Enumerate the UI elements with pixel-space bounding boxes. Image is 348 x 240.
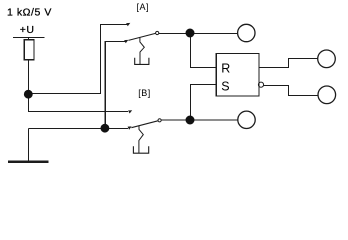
svg-text:[B]: [B] [138, 88, 151, 98]
wire: rail to resistor [28, 37, 30, 40]
ground rail wire to switch B lower contact [29, 127, 129, 129]
wire: riser 1 up toward switch A [100, 24, 102, 94]
supply rail bar +U [13, 37, 45, 39]
switch A pushbutton bracket [135, 58, 149, 65]
junction node 1 (resistor output) [24, 90, 33, 99]
svg-text:[A]: [A] [137, 2, 150, 12]
wire: switch B pole to node 4 [161, 119, 190, 121]
wire: rail down to ground [28, 128, 30, 160]
wire: node 3 down to R input [191, 33, 217, 68]
switch B actuator link [139, 126, 143, 154]
switch A pole circle [156, 31, 159, 34]
svg-text:+U: +U [20, 24, 35, 36]
switch B pushbutton bracket [133, 146, 148, 153]
switch B upper contact arrowhead [128, 110, 132, 113]
wire: to switch A upper contact [100, 23, 127, 25]
wire: node 4 to indicator lamp L2 [190, 119, 238, 121]
indicator lamp L2 [238, 111, 255, 128]
wire: riser 2 down from switch A lower contact to node 2 [105, 42, 125, 129]
RS flip-flop U1 box [216, 53, 259, 96]
indicator lamp L4 [318, 86, 336, 104]
indicator lamp L3 [318, 50, 336, 68]
svg-text:R: R [221, 62, 230, 76]
svg-text:S: S [221, 79, 229, 93]
switch A lever [128, 33, 155, 40]
ground symbol bar [8, 161, 48, 164]
wire: resistor to node 1 [28, 60, 30, 95]
switch B pole circle [158, 119, 161, 122]
wire: switch A pole to node 3 [159, 33, 190, 35]
wire: node 1 down then right to switch B upper contact [29, 94, 129, 111]
switch B lower contact arrowhead [128, 126, 132, 129]
switch A actuator link [140, 38, 144, 65]
wire: inverted Q output to lamp L4 [264, 86, 318, 96]
indicator lamp L1 [238, 24, 255, 41]
junction node 3 (switch A output) [186, 29, 195, 38]
switch A lower contact arrowhead [124, 40, 128, 43]
switch B lever [131, 121, 158, 128]
switch A upper contact arrowhead [126, 23, 130, 26]
resistor R1 (1 kOhm) [24, 40, 34, 60]
svg-text:1 kΩ/5 V: 1 kΩ/5 V [7, 7, 52, 19]
wire: node 1 right to riser 1 [29, 93, 102, 95]
wire: node 4 up to S input [191, 84, 217, 120]
wire: node 3 to indicator lamp L1 [190, 33, 238, 35]
wire: Q output to lamp L3 [259, 59, 318, 68]
junction node 2 (ground rail / riser 2) [101, 124, 110, 133]
output bubble (inverted Q) [258, 82, 263, 87]
junction node 4 (switch B output) [186, 116, 195, 125]
